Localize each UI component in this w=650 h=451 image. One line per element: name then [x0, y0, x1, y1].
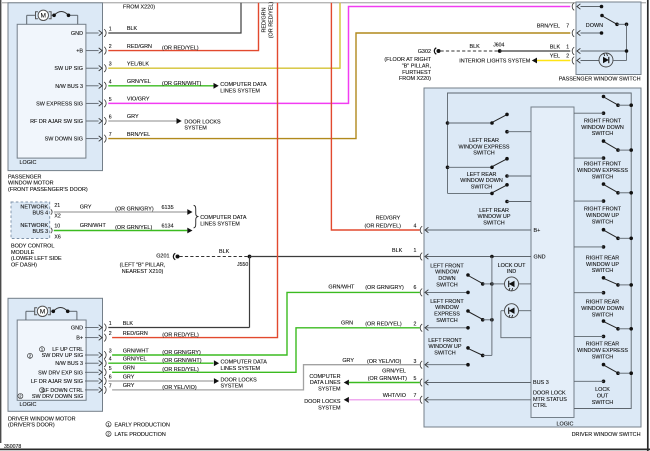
wire WHT/VIO door locks to switch pin 7	[304, 393, 420, 412]
svg-text:LINES SYSTEM: LINES SYSTEM	[200, 222, 240, 228]
svg-text:VIO/GRY: VIO/GRY	[127, 97, 150, 103]
left rear window express switch	[446, 113, 531, 157]
passenger window switch box	[576, 2, 641, 75]
svg-text:YEL/BLK: YEL/BLK	[127, 61, 149, 67]
passenger motor pin 7 SW DOWN SIG	[45, 132, 112, 143]
dashed wire BLK G302 to J604	[441, 44, 501, 51]
driver motor pin 4	[55, 357, 112, 368]
svg-text:FROM X220): FROM X220)	[123, 5, 155, 11]
svg-text:SYSTEM: SYSTEM	[184, 126, 207, 132]
wire GRY BCM network bus 4	[54, 204, 193, 215]
brace computer data lines system	[194, 205, 247, 228]
GND branch vertical to left front switches	[491, 257, 493, 356]
legend early production	[106, 422, 170, 429]
svg-text:SWITCH: SWITCH	[436, 318, 458, 324]
driver motor pin 7 two-line label with production circles	[18, 388, 83, 401]
svg-text:LATE PRODUCTION: LATE PRODUCTION	[115, 432, 166, 438]
passenger motor pin 2 +B	[76, 44, 112, 55]
svg-text:WINDOW: WINDOW	[435, 305, 460, 311]
svg-text:4: 4	[109, 79, 112, 85]
svg-text:DOOR LOCKS: DOOR LOCKS	[221, 377, 258, 383]
wire YEL interior lights to passenger switch pin 2	[459, 54, 570, 65]
wire GRN/YEL computer data lines to switch pin 5	[309, 368, 419, 392]
svg-text:350078: 350078	[4, 444, 21, 450]
svg-text:LEFT REAR: LEFT REAR	[469, 138, 499, 144]
svg-text:GRN/WHT: GRN/WHT	[328, 284, 355, 290]
svg-text:(OR GRN/YEL): (OR GRN/YEL)	[115, 225, 152, 231]
svg-text:RF DR AJAR SW SIG: RF DR AJAR SW SIG	[30, 119, 83, 125]
driver switch connector	[420, 289, 422, 297]
svg-text:COMPUTER DATA: COMPUTER DATA	[221, 360, 268, 366]
right front window down switch	[574, 95, 633, 137]
svg-text:10: 10	[54, 224, 60, 230]
LED lock out indicator 2	[501, 304, 531, 338]
svg-text:(OR RED/YEL): (OR RED/YEL)	[365, 321, 402, 327]
svg-text:M: M	[41, 13, 47, 20]
G201 caption	[120, 263, 166, 275]
svg-text:+B: +B	[76, 49, 83, 55]
svg-text:(OR YEL/VIO): (OR YEL/VIO)	[367, 359, 402, 365]
svg-text:RIGHT FRONT: RIGHT FRONT	[584, 207, 622, 213]
svg-text:(OR GRN/WHT): (OR GRN/WHT)	[162, 358, 201, 364]
svg-text:GRY: GRY	[80, 204, 92, 210]
wire GRN/YEL driver pin 4 to computer data lines	[108, 357, 267, 372]
page frame right line	[647, 0, 649, 451]
wire BLK J604 to passenger switch pin 1	[500, 44, 570, 51]
wire GRY passenger pin 6 to door locks	[108, 114, 221, 131]
junction J604	[493, 43, 504, 53]
svg-text:7: 7	[566, 24, 569, 30]
svg-text:GRN/YEL: GRN/YEL	[123, 357, 147, 363]
svg-text:BODY CONTROL: BODY CONTROL	[11, 244, 54, 250]
svg-text:COMPUTER: COMPUTER	[309, 374, 340, 380]
svg-text:COMPUTER DATA: COMPUTER DATA	[200, 215, 247, 221]
passenger motor caption	[8, 174, 88, 193]
svg-text:M: M	[40, 309, 46, 316]
svg-text:1: 1	[566, 44, 569, 50]
svg-text:LEFT FRONT: LEFT FRONT	[430, 263, 464, 269]
svg-text:LOGIC: LOGIC	[557, 422, 574, 428]
svg-text:EARLY PRODUCTION: EARLY PRODUCTION	[115, 422, 170, 428]
svg-text:1: 1	[109, 321, 112, 327]
svg-text:WINDOW UP: WINDOW UP	[478, 214, 511, 220]
svg-text:GRY: GRY	[123, 374, 135, 380]
svg-text:1: 1	[414, 248, 417, 254]
wire GRN/WHT BCM network bus 3	[54, 223, 193, 234]
svg-text:WINDOW: WINDOW	[435, 270, 460, 276]
svg-text:1: 1	[109, 27, 112, 33]
svg-text:DRIVER WINDOW SWITCH: DRIVER WINDOW SWITCH	[572, 432, 641, 438]
svg-text:BLK: BLK	[127, 26, 138, 32]
svg-text:NEAREST X210): NEAREST X210)	[122, 269, 164, 275]
page frame left line	[0, 0, 2, 443]
svg-text:6: 6	[109, 115, 112, 121]
wire GRY driver pin 7 to switch pin 3	[112, 358, 420, 391]
passenger switch connector	[572, 47, 574, 55]
passenger switch connector	[572, 57, 574, 65]
svg-text:LF DR AJAR SW SIG: LF DR AJAR SW SIG	[31, 379, 83, 385]
internal GND line	[426, 255, 532, 259]
svg-text:PASSENGER WINDOW SWITCH: PASSENGER WINDOW SWITCH	[559, 76, 641, 82]
wire BLK J550 down to driver motor pin 1	[249, 257, 251, 328]
svg-text:GRY: GRY	[123, 383, 135, 389]
svg-text:(FRONT PASSENGER'S DOOR): (FRONT PASSENGER'S DOOR)	[8, 187, 88, 193]
ground G201	[156, 253, 179, 259]
svg-text:CTRL: CTRL	[533, 403, 547, 409]
svg-text:FURTHEST: FURTHEST	[402, 70, 432, 76]
svg-text:DOWN: DOWN	[438, 276, 455, 282]
svg-text:RIGHT REAR: RIGHT REAR	[586, 256, 620, 262]
dashed wire BLK G201 to J550	[180, 249, 250, 257]
driver window switch box	[424, 88, 641, 427]
wire GRN driver pin 5 to switch pin 2	[112, 321, 420, 374]
right front window express switch	[574, 139, 633, 180]
svg-text:(OR GRN/WHT): (OR GRN/WHT)	[162, 81, 201, 87]
svg-text:(OR RED/YEL): (OR RED/YEL)	[162, 46, 199, 52]
wire GRN/YEL passenger pin 4 to computer data lines	[108, 79, 267, 94]
wire BLK passenger pin 1	[108, 3, 241, 33]
svg-text:BLK: BLK	[392, 248, 403, 254]
svg-text:RIGHT REAR: RIGHT REAR	[586, 300, 620, 306]
svg-text:RIGHT FRONT: RIGHT FRONT	[584, 119, 622, 125]
svg-text:SWITCH: SWITCH	[592, 268, 614, 274]
svg-text:BUS 4: BUS 4	[32, 211, 48, 217]
svg-text:GRN: GRN	[341, 321, 353, 327]
LED lock out indicator 1	[492, 277, 531, 291]
svg-text:4: 4	[414, 223, 417, 229]
svg-text:BLK: BLK	[550, 44, 561, 50]
svg-text:GRN/YEL: GRN/YEL	[382, 368, 406, 374]
svg-text:WINDOW DOWN: WINDOW DOWN	[581, 306, 624, 312]
wire RED/GRN feeder to driver motor B+ (x=277.5)	[112, 3, 277, 338]
svg-text:LOGIC: LOGIC	[20, 402, 37, 408]
svg-text:SW DOWN SIG: SW DOWN SIG	[45, 137, 83, 143]
svg-text:BLK: BLK	[123, 321, 134, 327]
page frame bottom line	[0, 448, 650, 450]
svg-text:DATA LINES: DATA LINES	[310, 380, 341, 386]
svg-text:2: 2	[414, 321, 417, 327]
passenger window motor box	[8, 3, 103, 171]
svg-text:SW EXPRESS SIG: SW EXPRESS SIG	[36, 101, 83, 107]
wire GRN/WHT driver pin 3 to switch pin 6	[112, 284, 420, 356]
left rear window up switch	[448, 183, 532, 227]
svg-text:MTR STATUS: MTR STATUS	[533, 397, 567, 403]
svg-text:EXPRESS: EXPRESS	[434, 312, 460, 318]
passenger switch connector	[572, 3, 574, 11]
svg-text:LOCK: LOCK	[595, 387, 610, 393]
svg-text:7: 7	[414, 393, 417, 399]
body control module dashed box	[11, 202, 50, 239]
svg-text:IND: IND	[507, 269, 516, 275]
svg-text:WINDOW EXPRESS: WINDOW EXPRESS	[577, 168, 628, 174]
passenger motor pin 4 N/W BUS 3	[55, 79, 112, 90]
svg-text:WINDOW MOTOR: WINDOW MOTOR	[8, 181, 54, 187]
svg-text:GND: GND	[71, 326, 83, 332]
wire GRY driver pin 6 to door locks	[108, 374, 257, 389]
wire RED/GRN passenger pin 2	[108, 3, 258, 52]
label RED/GRN driver pin 2	[123, 331, 199, 339]
svg-text:J604: J604	[493, 43, 504, 49]
svg-text:RED/GRN: RED/GRN	[127, 44, 152, 50]
svg-text:DOOR LOCK: DOOR LOCK	[533, 391, 566, 397]
wire BLK driver pin 1	[108, 321, 249, 327]
passenger switch connector	[572, 29, 574, 37]
svg-text:LEFT REAR: LEFT REAR	[467, 172, 497, 178]
motor M (driver)	[26, 306, 77, 320]
svg-text:(OR GRN/GRY): (OR GRN/GRY)	[115, 206, 154, 212]
svg-text:2: 2	[109, 331, 112, 337]
svg-text:SWITCH: SWITCH	[473, 151, 495, 157]
svg-text:SYSTEM: SYSTEM	[221, 384, 244, 390]
passenger switch common vertical	[626, 24, 628, 60]
svg-text:WHT/VIO: WHT/VIO	[383, 393, 406, 399]
svg-text:NETWORK: NETWORK	[20, 223, 48, 229]
svg-text:RED/GRN: RED/GRN	[261, 7, 267, 32]
svg-text:GRY: GRY	[127, 114, 139, 120]
G302 caption	[384, 57, 431, 82]
svg-text:SWITCH: SWITCH	[471, 185, 493, 191]
svg-text:RIGHT FRONT: RIGHT FRONT	[584, 162, 622, 168]
driver switch connector	[420, 226, 422, 234]
BCM caption	[11, 244, 62, 269]
svg-text:GRN/WHT: GRN/WHT	[80, 223, 107, 229]
svg-text:DOOR LOCKS: DOOR LOCKS	[304, 399, 341, 405]
passenger window motor logic box	[17, 24, 86, 158]
svg-text:2: 2	[566, 54, 569, 60]
svg-text:(FLOOR AT RIGHT: (FLOOR AT RIGHT	[384, 57, 431, 63]
svg-text:6: 6	[109, 375, 112, 381]
svg-text:SWITCH: SWITCH	[592, 400, 614, 406]
svg-text:DOWN: DOWN	[586, 23, 603, 29]
svg-text:SWITCH: SWITCH	[592, 312, 614, 318]
lock out switch	[574, 363, 633, 406]
passenger motor pin 3 SW UP SIG	[54, 62, 111, 73]
BCM pin 10 X6 NETWORK BUS 3	[20, 223, 60, 241]
svg-text:LEFT REAR: LEFT REAR	[479, 208, 509, 214]
svg-text:COMPUTER DATA: COMPUTER DATA	[220, 82, 267, 88]
right rear window down switch	[574, 276, 633, 318]
passenger switch lamp	[581, 53, 627, 67]
svg-text:WINDOW EXPRESS: WINDOW EXPRESS	[458, 144, 509, 150]
svg-text:7: 7	[109, 132, 112, 138]
svg-text:X6: X6	[54, 235, 60, 241]
wire YEL/BLK passenger pin 3	[108, 3, 340, 68]
junction J550	[237, 255, 251, 268]
svg-text:INTERIOR LIGHTS SYSTEM: INTERIOR LIGHTS SYSTEM	[459, 58, 530, 64]
svg-text:N/W BUS 3: N/W BUS 3	[55, 84, 83, 90]
label DOOR LOCK MTR STATUS CTRL	[533, 391, 567, 410]
svg-text:MODULE: MODULE	[11, 250, 35, 256]
svg-text:(LEFT "B" PILLAR,: (LEFT "B" PILLAR,	[120, 263, 166, 269]
driver motor pin 1	[71, 321, 112, 332]
svg-text:BRN/YEL: BRN/YEL	[537, 24, 560, 30]
svg-text:SWITCH: SWITCH	[592, 354, 614, 360]
driver switch connector	[420, 379, 422, 387]
left rear window down switch	[446, 157, 531, 191]
svg-text:6: 6	[414, 285, 417, 291]
driver motor caption	[8, 416, 76, 428]
BCM pin 21 X2 NETWORK BUS 4	[20, 203, 60, 220]
svg-text:DOOR LOCKS: DOOR LOCKS	[184, 119, 221, 125]
wire BRN/YEL passenger pin 7	[108, 33, 570, 139]
motor M (passenger)	[27, 10, 78, 24]
svg-text:SWITCH: SWITCH	[434, 350, 456, 356]
svg-text:GRN/WHT: GRN/WHT	[123, 348, 150, 354]
svg-text:WINDOW UP: WINDOW UP	[586, 262, 619, 268]
svg-text:WINDOW DOWN: WINDOW DOWN	[460, 178, 503, 184]
svg-text:(DRIVER'S DOOR): (DRIVER'S DOOR)	[8, 423, 55, 429]
wire RED/GRY feeder to driver switch B+ (x=331.4)	[331, 3, 419, 230]
svg-text:SW DRV EXP SIG: SW DRV EXP SIG	[38, 370, 83, 376]
svg-text:7: 7	[109, 383, 112, 389]
svg-text:SYSTEM: SYSTEM	[318, 406, 341, 412]
driver motor pin 6	[31, 375, 112, 386]
svg-text:PASSENGER: PASSENGER	[8, 174, 42, 180]
svg-text:GRN/YEL: GRN/YEL	[127, 79, 151, 85]
passenger motor pin 1 GND	[71, 27, 112, 38]
svg-text:2: 2	[109, 44, 112, 50]
svg-text:WINDOW DOWN: WINDOW DOWN	[581, 125, 624, 131]
svg-text:SWITCH: SWITCH	[436, 282, 458, 288]
driver switch connector	[420, 324, 422, 332]
svg-text:YEL: YEL	[550, 54, 560, 60]
passenger motor pin 6 RF DR AJAR SW SIG	[30, 115, 112, 126]
svg-text:SWITCH: SWITCH	[592, 174, 614, 180]
label BRN/YEL 7 at passenger switch	[537, 24, 570, 30]
svg-text:LEFT FRONT: LEFT FRONT	[430, 299, 464, 305]
svg-text:FROM X220): FROM X220)	[399, 76, 431, 82]
svg-text:3: 3	[414, 359, 417, 365]
svg-text:WINDOW EXPRESS: WINDOW EXPRESS	[577, 348, 628, 354]
driver switch logic box (central)	[531, 107, 574, 418]
svg-text:(OR RED/YEL): (OR RED/YEL)	[364, 223, 401, 229]
svg-text:BLK: BLK	[219, 249, 230, 255]
svg-text:J550: J550	[237, 262, 248, 268]
driver switch connector	[420, 396, 422, 404]
svg-text:LEFT FRONT: LEFT FRONT	[428, 338, 462, 344]
svg-text:SWITCH: SWITCH	[483, 221, 505, 227]
svg-text:WINDOW UP: WINDOW UP	[429, 344, 462, 350]
legend late production	[106, 431, 166, 438]
driver motor pin 3 two-line label with production circles	[28, 347, 84, 359]
passenger switch DOWN arm	[586, 14, 629, 29]
svg-text:SWITCH: SWITCH	[592, 131, 614, 137]
svg-text:N/W BUS 3: N/W BUS 3	[55, 361, 83, 367]
svg-text:3: 3	[109, 62, 112, 68]
svg-text:SWITCH: SWITCH	[592, 219, 614, 225]
driver switch connector	[420, 253, 422, 261]
wire BLK J550 to driver window switch pin 1	[250, 248, 420, 256]
vertical label RED/GRN (OR RED/YEL)	[261, 2, 274, 39]
common bus wire (left rear vertical, top run, right vertical)	[448, 93, 632, 409]
driver motor pin 7	[85, 383, 112, 393]
driver motor pin 2	[76, 331, 112, 342]
svg-text:SW DRV UP SIG: SW DRV UP SIG	[42, 353, 84, 359]
svg-text:5: 5	[414, 376, 417, 382]
svg-text:GRY: GRY	[342, 358, 354, 364]
svg-text:OF DASH): OF DASH)	[11, 263, 37, 269]
svg-text:6134: 6134	[162, 223, 174, 229]
svg-text:(OR GRN/GRY): (OR GRN/GRY)	[162, 350, 201, 356]
svg-text:(OR GRN/WHT): (OR GRN/WHT)	[368, 376, 407, 382]
svg-text:WINDOW UP: WINDOW UP	[586, 213, 619, 219]
svg-text:BUS 3: BUS 3	[533, 380, 549, 386]
svg-text:B+: B+	[76, 336, 83, 342]
svg-text:G201: G201	[156, 254, 169, 260]
svg-text:BLK: BLK	[470, 44, 481, 50]
svg-text:6135: 6135	[162, 205, 174, 211]
svg-text:LOGIC: LOGIC	[20, 160, 37, 166]
label LOCK OUT IND	[498, 263, 526, 275]
driver window motor box	[8, 298, 103, 411]
passenger switch BRN/YEL contact	[581, 31, 604, 35]
svg-text:B+: B+	[534, 228, 541, 234]
passenger switch internal: VIO/GRY contact	[581, 5, 604, 9]
svg-text:(LOWER LEFT SIDE: (LOWER LEFT SIDE	[11, 256, 62, 262]
svg-text:OUT: OUT	[597, 394, 609, 400]
svg-text:SW UP SIG: SW UP SIG	[54, 66, 83, 72]
svg-text:NETWORK: NETWORK	[20, 204, 48, 210]
right front window up switch	[574, 182, 633, 225]
svg-text:"B" PILLAR,: "B" PILLAR,	[402, 64, 432, 70]
svg-text:4: 4	[109, 357, 112, 363]
svg-text:21: 21	[54, 203, 60, 209]
svg-text:BRN/YEL: BRN/YEL	[127, 132, 150, 138]
internal wires to driver switch logic (pins 5,7)	[426, 382, 532, 384]
svg-text:LINES SYSTEM: LINES SYSTEM	[221, 366, 261, 372]
svg-text:(OR RED/YEL): (OR RED/YEL)	[269, 2, 275, 39]
svg-text:RED/GRN: RED/GRN	[123, 331, 148, 337]
passenger switch BLK line	[581, 49, 629, 53]
svg-text:(OR RED/YEL): (OR RED/YEL)	[162, 367, 199, 373]
svg-text:(OR GRN/GRY): (OR GRN/GRY)	[365, 285, 404, 291]
page frame top line	[2, 2, 646, 4]
svg-text:G302: G302	[418, 49, 431, 55]
svg-text:(OR RED/YEL): (OR RED/YEL)	[162, 333, 199, 339]
driver window motor logic box	[17, 320, 86, 400]
svg-text:3: 3	[109, 349, 112, 355]
right rear window up switch	[574, 228, 633, 274]
svg-text:5: 5	[109, 97, 112, 103]
left front window down switch	[426, 263, 494, 294]
svg-text:SW DRV DOWN SIG: SW DRV DOWN SIG	[32, 394, 83, 400]
svg-text:RED/GRY: RED/GRY	[376, 216, 401, 222]
svg-text:GND: GND	[534, 255, 546, 261]
svg-text:GRN: GRN	[123, 366, 135, 372]
left front window express switch	[426, 299, 494, 330]
internal B+ line	[426, 229, 532, 231]
svg-text:RIGHT REAR: RIGHT REAR	[586, 342, 620, 348]
right rear window express switch	[574, 319, 633, 360]
wire VIO/GRY passenger pin 5	[108, 7, 570, 104]
driver switch connector	[420, 361, 422, 369]
driver motor pin 3	[85, 349, 112, 359]
left front window up switch	[426, 338, 492, 367]
svg-text:DRIVER WINDOW MOTOR: DRIVER WINDOW MOTOR	[8, 416, 76, 422]
svg-text:SYSTEM: SYSTEM	[318, 386, 341, 392]
svg-text:LINES SYSTEM: LINES SYSTEM	[220, 88, 260, 94]
svg-text:(OR YEL/VIO): (OR YEL/VIO)	[162, 385, 197, 391]
svg-text:BUS 3: BUS 3	[32, 229, 48, 235]
driver motor pin 5	[38, 366, 112, 377]
svg-text:5: 5	[109, 366, 112, 372]
ground G302	[418, 48, 441, 55]
passenger motor pin 5 SW EXPRESS SIG	[36, 97, 112, 108]
svg-text:X2: X2	[54, 214, 60, 220]
svg-text:GND: GND	[71, 31, 83, 37]
